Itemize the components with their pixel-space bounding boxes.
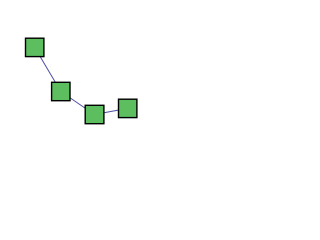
- node 2: [52, 82, 70, 100]
- edge 3-4: [94, 108, 127, 114]
- edge 2-3: [61, 92, 95, 115]
- node 4: [119, 99, 137, 117]
- edge 1-2: [35, 47, 61, 91]
- node 1: [26, 38, 44, 56]
- node 3: [85, 105, 104, 123]
